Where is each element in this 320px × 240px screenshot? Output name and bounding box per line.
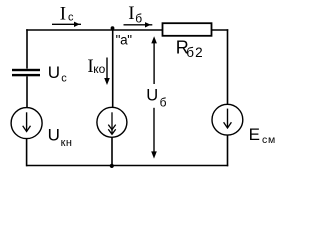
svg-text:б2: б2	[186, 45, 204, 60]
wire middle vertical upper	[112, 28, 114, 108]
svg-text:I: I	[128, 3, 134, 24]
svg-text:c: c	[61, 73, 67, 85]
source I middle double arrow	[111, 112, 113, 133]
current arrow I_b	[124, 24, 153, 26]
wire bottom horizontal	[26, 165, 228, 167]
wire top right horizontal	[212, 29, 229, 31]
source U_kn arrow	[26, 112, 28, 130]
wire right vertical lower	[227, 135, 229, 166]
wire right vertical upper	[227, 29, 229, 104]
voltage arrow U_b upper (head up)	[153, 40, 155, 84]
current arrow I_c	[52, 23, 81, 25]
svg-text:"а": "а"	[116, 32, 133, 47]
svg-text:ко: ко	[93, 62, 105, 76]
source E_sm circle	[212, 104, 243, 135]
resistor R_b2 box	[163, 23, 212, 36]
wire middle vertical lower	[111, 137, 113, 166]
svg-text:см: см	[262, 134, 276, 146]
svg-text:б: б	[135, 11, 142, 25]
wire top left horizontal	[26, 29, 162, 31]
source E_sm arrow	[227, 109, 229, 127]
svg-text:кн: кн	[61, 137, 73, 149]
wire left vertical middle	[26, 76, 28, 108]
svg-text:U: U	[48, 63, 60, 82]
source U_kn circle	[11, 108, 42, 139]
svg-text:c: c	[68, 11, 74, 23]
bottom junction dot	[110, 164, 114, 168]
wire left vertical lower	[26, 139, 28, 167]
svg-text:U: U	[146, 87, 158, 105]
current arrow I_ko	[106, 58, 108, 80]
source I middle circle	[97, 107, 127, 137]
svg-text:б: б	[160, 96, 167, 110]
svg-text:E: E	[249, 125, 260, 144]
capacitor plate top	[12, 69, 40, 71]
capacitor plate bottom	[12, 74, 40, 76]
svg-text:I: I	[60, 4, 66, 25]
node a junction dot	[111, 26, 115, 30]
wire left vertical upper	[26, 29, 28, 68]
voltage arrow U_b lower (head down)	[153, 108, 155, 153]
svg-text:U: U	[48, 126, 60, 145]
